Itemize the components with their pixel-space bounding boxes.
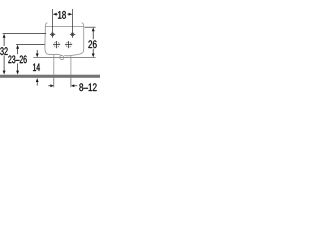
dim 32 leader [3, 33, 47, 35]
dim text 18 [58, 11, 66, 19]
drain circle [60, 56, 64, 60]
bidet ceramic outline (perspective front view) [45, 23, 84, 56]
dim 26 top arrow [92, 27, 95, 39]
dim 18 right arrow [67, 13, 72, 16]
dim text 8-12 [79, 83, 96, 91]
dim 23-26 bottom arrow [16, 63, 19, 74]
dim 18 left arrow [53, 13, 58, 16]
dim 23-26 leader [16, 44, 45, 46]
dim 18 extension line right [72, 9, 74, 31]
dim text 32 [0, 47, 7, 55]
8-12 extension line left below floor [53, 78, 55, 88]
dim 26 leader top [85, 26, 96, 28]
dim text 14 [33, 64, 40, 72]
dim 14 bottom arrow [36, 78, 39, 85]
dim 26 bottom arrow [92, 49, 95, 58]
dim 14 top arrow [36, 50, 39, 57]
mounting hole cross top-right [70, 31, 75, 37]
trap side line left [53, 55, 55, 75]
connection cross bottom-right with dashed circle [65, 41, 72, 48]
dim 18 extension line left [52, 9, 54, 31]
floor band [0, 75, 100, 78]
dim text 23-26 [8, 55, 26, 63]
dim 32 top arrow [3, 34, 6, 46]
mounting hole cross top-left [50, 31, 55, 37]
dim text 26 [88, 40, 96, 48]
dim 8-12 right arrow [71, 84, 77, 87]
8-12 extension line right below floor [70, 78, 72, 88]
dim 32 bottom arrow [3, 56, 6, 75]
front rim bottom long line [33, 57, 95, 59]
back rim line at wall [45, 26, 83, 28]
dim 8-12 left arrow [48, 84, 53, 87]
connection cross bottom-left with dashed circle [53, 41, 60, 48]
trap side line right [70, 55, 72, 74]
dim 23-26 top arrow [16, 45, 19, 54]
